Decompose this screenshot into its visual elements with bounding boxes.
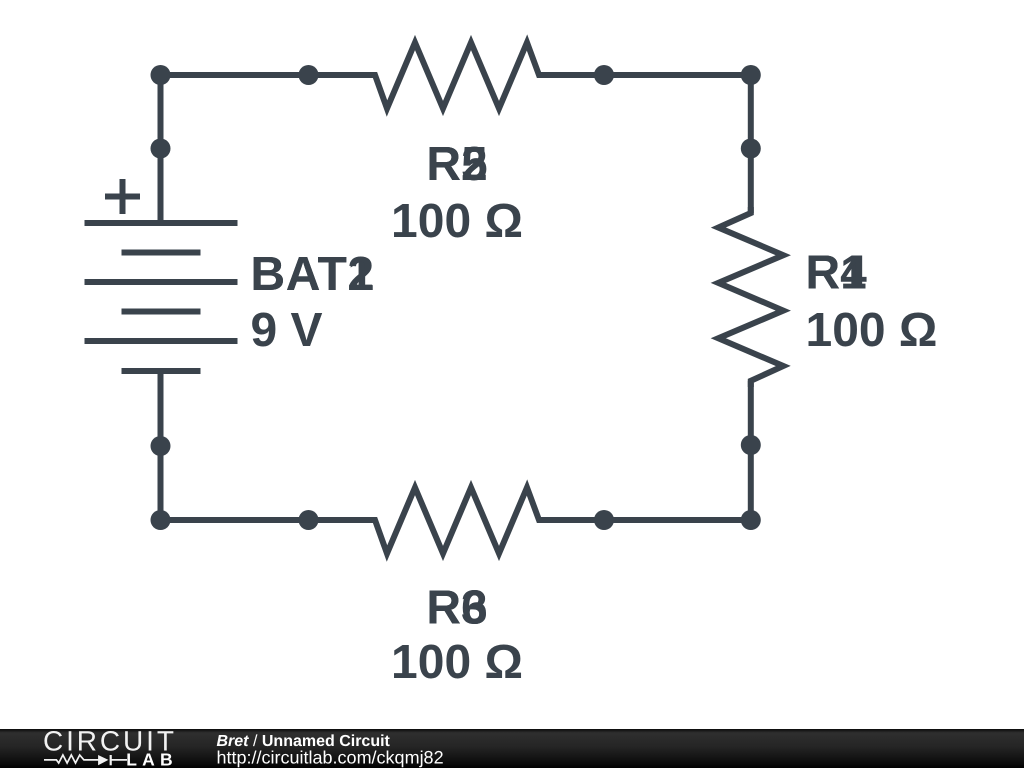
wire left side upper: [158, 75, 164, 223]
wire bottom-left to bottom resistor: [161, 517, 376, 523]
value label 100 Ohm (bottom): [391, 636, 523, 689]
svg-text:100 Ω: 100 Ω: [391, 636, 523, 689]
CircuitLab logo diode: [98, 755, 127, 765]
node left wire lower junction: [151, 436, 171, 456]
value label 9 V: [251, 304, 323, 357]
svg-text:LAB: LAB: [126, 750, 178, 768]
node bottom wire right junction: [594, 510, 614, 530]
label BAT1/BAT2: [251, 248, 375, 301]
resistor R3 / R6 (bottom): [369, 488, 545, 554]
node top wire right junction: [594, 65, 614, 85]
credits url: [217, 747, 444, 767]
svg-text:R4: R4: [806, 247, 868, 300]
CircuitLab logo text LAB: [126, 750, 178, 768]
node top-right corner: [741, 65, 761, 85]
svg-text:100 Ω: 100 Ω: [391, 195, 523, 248]
resistor R1 / R4 (right): [718, 207, 783, 387]
credits title: [217, 733, 391, 750]
wire right side lower: [748, 381, 754, 520]
node bottom-left corner: [151, 510, 171, 530]
wire top resistor to top-right: [539, 72, 751, 78]
label R3/R6: [426, 582, 487, 635]
wire bottom resistor to bottom-right: [539, 517, 751, 523]
node bottom-right corner: [741, 510, 761, 530]
footer bar: [0, 729, 1024, 768]
wire right side upper: [748, 75, 754, 213]
svg-text:9 V: 9 V: [251, 304, 323, 357]
node left wire upper junction: [151, 139, 171, 159]
CircuitLab logo text CIRCUIT: [43, 726, 177, 757]
node top wire left junction: [299, 65, 319, 85]
value label 100 Ohm (top): [391, 195, 523, 248]
node right wire lower junction: [741, 435, 761, 455]
svg-text:100 Ω: 100 Ω: [806, 304, 938, 357]
wire left side lower: [158, 371, 164, 520]
node right wire upper junction: [741, 139, 761, 159]
label R1/R4: [806, 247, 868, 300]
svg-text:http://circuitlab.com/ckqmj82: http://circuitlab.com/ckqmj82: [217, 747, 444, 767]
battery BAT1 / BAT2 plates: [85, 223, 238, 371]
svg-text:R5: R5: [426, 138, 487, 191]
svg-text:BAT2: BAT2: [251, 248, 375, 301]
label R2/R5: [426, 138, 487, 191]
wire top-left to top resistor: [161, 72, 376, 78]
svg-text:R6: R6: [426, 582, 487, 635]
node top-left corner: [151, 65, 171, 85]
resistor R2 / R5 (top): [369, 43, 545, 109]
battery BAT1 / BAT2 plus sign: [105, 179, 140, 214]
value label 100 Ohm (right): [806, 304, 938, 357]
CircuitLab logo resistor zigzag: [44, 755, 99, 763]
node bottom wire left junction: [299, 510, 319, 530]
